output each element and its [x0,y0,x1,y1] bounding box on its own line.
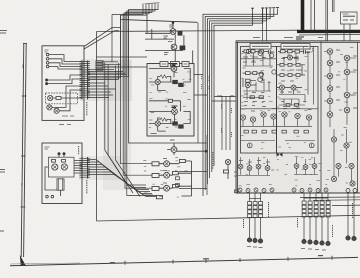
transistor Q63 [256,164,261,169]
title label B [281,44,310,49]
transistor Q105 [61,164,67,170]
mini wires down [344,24,350,41]
transistor Q56 [350,181,355,186]
resistor R43 [262,130,266,133]
extra labels A2 [244,93,265,106]
resistor R32 [296,63,300,66]
transistor Q50 [344,107,350,113]
transistor Q9 [164,161,170,167]
wire from T1 [49,55,82,62]
transistor Q43 [327,73,333,79]
bottom faint second line [10,263,80,264]
wire Q2 base [145,49,183,51]
resistor R46 [294,130,298,133]
right cluster wires [294,157,318,175]
bottom line tick a [124,261,126,265]
transistor Q2 [171,44,177,50]
vertical wire x147 [146,13,148,33]
bundle vertical v4 [121,15,153,164]
left bar arrowhead [20,255,26,266]
box1 riser wire b [84,31,119,50]
resistor R7 dark [179,125,184,128]
big box bottom edge [97,215,360,221]
box1 inner label text [45,50,49,52]
label rect L1 [160,62,168,67]
long vertical wire x266 [266,9,268,42]
wires row B1 [278,51,310,57]
mini parts [343,16,355,20]
nest stub ticks [251,7,279,10]
wire y57 [97,56,148,58]
transistor Q22 [288,55,293,60]
Q1 label [169,25,174,27]
left terminal circles [247,238,251,242]
label marks [162,63,188,65]
vertical label right of cluster [212,152,214,169]
nest wire n5 [212,8,263,172]
wire Q1 top tap [172,23,174,29]
fuse bowtie on inner box bottom [277,152,283,157]
Q9 wires [159,161,191,164]
right stack side label [297,218,299,228]
bus stub ticks [145,3,160,4]
mid transistor row q35 [282,112,287,117]
right stack boxes [302,201,306,204]
label rect L3 [182,62,189,67]
vertical link Q1-Q2 [174,34,176,63]
Q8 legs [167,143,174,155]
wire y151 [177,150,207,152]
transistor Q102 [47,105,52,110]
resistor R22 [251,50,255,53]
inner box right rail [320,41,322,193]
bus line 1 [88,4,149,72]
mid row labels [241,107,312,112]
mid transistor row q37 [306,115,311,120]
wire Q102 out [52,86,82,107]
right partial line c [332,204,360,207]
node dot D [63,153,65,155]
long vertical wire x262 [262,9,264,42]
transistor Q104 [52,164,58,170]
nest wire n3 [207,8,270,184]
transistor Q7 [155,121,160,126]
cluster to rail wire lower [179,188,207,190]
wire from node A [48,75,82,80]
Q10 wires [159,173,186,175]
left terminal labels [247,247,263,248]
fan wire f2 [88,162,146,188]
mini box outline [341,12,358,24]
inner rail line y108.8 [241,108,319,110]
resistor R104 [52,160,56,163]
cluster labels small [163,159,167,184]
cluster right small rect b [176,184,180,187]
mid row legs [240,117,312,126]
transistor Q101 [48,95,53,100]
transistor Qa2 [258,51,262,55]
right column devices [324,49,357,186]
vertical wire x112 [111,15,113,63]
vertical wire x314 [314,0,316,30]
vertical wire x311 [310,0,312,31]
bottom border line [10,257,358,265]
transistor Qa6 [258,77,262,81]
bundle vertical v3 [116,66,140,197]
transistor Q62 [247,166,252,171]
cluster to rail wire upper [179,171,207,173]
page edge mark mid-left [0,170,5,173]
right stack lower wires [304,217,328,242]
nested-bus to box ties [212,97,236,102]
resistor R30 [280,63,284,66]
left bar tick 1 [23,43,27,45]
fan wire f3 [88,165,149,190]
left bar tick 4 [21,206,26,208]
label box M3 [152,186,159,190]
transistor Q103 [54,108,59,113]
far right wires down [348,193,354,237]
scan bleed patch strip2 [79,156,121,180]
resistor R1 [178,31,182,35]
resistor R26 [246,79,251,82]
resistor R9 [180,159,186,162]
label near x332 [332,225,334,237]
transistor Q41 [327,49,333,55]
inner box B [277,47,319,154]
right terminal circles [302,239,306,243]
dashed label box row top-left [304,47,313,53]
junction dot Q1 top [172,22,174,24]
resistor R47 [304,130,308,133]
tall box bottom text [151,133,157,135]
diode marks right [293,189,327,192]
bus line 5 [88,4,146,78]
nest labels [202,74,210,90]
box2 outline [42,143,82,204]
bottom line tick c [239,258,241,262]
box1 bottom label text [62,115,74,117]
wire row y140 [241,140,315,142]
transistor Qa3 [269,53,273,57]
transistor Q46 [327,112,333,118]
box2 label top [45,147,50,149]
nest wire n6 [214,8,253,166]
extra resistor Rb1 [286,104,290,107]
left stack wires down [250,193,261,202]
diode row left d1 [238,188,242,192]
resistor R4 dark [179,83,184,86]
box1 riser wire a [84,28,121,47]
Q11 wires [159,186,186,188]
box1 terminal T2 [46,58,49,61]
bottom line label 1 [110,262,115,264]
labels B [281,59,302,82]
resistor R28 [288,50,293,53]
wire y67 to tall box [103,66,147,68]
transistor Q64 [265,166,270,171]
zigzag resistor upper [160,75,167,78]
circled number 1 left [247,143,252,148]
label below Q2 [164,53,169,55]
right stack link [304,197,328,199]
transistor Qa1 [246,49,250,53]
transistor Q49 [344,92,350,98]
node dot C [58,153,60,155]
resistor R42 [252,130,256,133]
right partial line b [313,199,360,202]
scan bleed patch over bundle [103,60,131,190]
extra labels B2 [280,92,306,109]
strip1 rungs [80,62,91,98]
diode row right d10 [324,188,328,192]
fan wire f5 [88,170,152,194]
left edge small dash low [0,230,4,232]
bottom line tick d [287,257,289,261]
transistor Qa4 [259,72,263,76]
diode row left d3 [254,188,258,192]
mid transistor row q33 [261,112,266,117]
resistor R101 [56,97,61,100]
wire x112 top bend [112,4,143,15]
right column wires [324,52,356,128]
heavy vertical drop at x302 [301,0,305,32]
box2 terminal T5 [46,195,49,198]
extra resistor Ra1 [250,96,254,99]
cluster right small rect a [176,177,180,180]
wires row B2 [277,64,305,66]
bottom line label 2 [203,258,209,260]
scan bleed patch tall box [147,63,194,136]
strip1 tap wires [88,83,116,98]
lower right wires [334,129,352,181]
mid vertical label [268,202,270,217]
diode row right d6 [292,188,296,192]
bottom line tick e [331,256,333,260]
resistor R10 [172,172,178,175]
inter-cell rect [168,99,172,102]
wires row B3 [277,65,305,75]
vertical to box x192.7 [192,50,194,63]
transistor Q67 [312,164,317,169]
wire x325 [325,0,327,41]
resistor R11 [172,185,178,188]
box2 inner frame [49,157,75,177]
bundle vertical v6 [125,12,152,188]
left bar tick 3 [21,155,26,157]
box2 outer side label [86,180,88,194]
bottom line label 3 [318,255,323,257]
transistor Q24 [291,85,296,90]
big box top edge [97,30,299,31]
tall box outline [147,64,194,137]
diode row left d5 [270,188,274,192]
bus line 3 [88,4,155,75]
extra mesh box A [243,53,273,100]
wire from T3 [49,63,82,67]
resistor R24 [246,72,251,75]
wire y143 [144,142,207,144]
resistor R25 [253,72,257,75]
diode marks left [239,189,273,192]
wire Q103 out [59,90,82,111]
fan wire f4 [88,167,150,192]
box1 terminal T3 [46,62,49,65]
mid transistor row q32 [250,117,255,122]
resistor R6 dark [173,122,178,125]
wire from T2 [49,59,82,64]
transistor Q51 [331,137,336,142]
right column labels [336,50,357,108]
box1 outline [42,46,84,121]
fan wire f1 [88,160,146,186]
rail vertical x207 [206,135,208,195]
strip2 rungs [80,158,91,177]
transistor Q66 [303,165,308,170]
speaker label vertical [352,203,354,218]
transistor Q48 [344,69,350,75]
circled number 1 right [309,143,314,148]
Q8 label [170,139,175,141]
wire from node B [48,79,82,84]
Q4 dark label [171,64,177,66]
box1 terminal T1 [46,53,49,56]
diode D11 [346,189,350,193]
node dot A [46,79,48,81]
wire box2 w3 [45,167,61,196]
diode row right d9 [316,189,320,193]
mid transistor row q34 [271,114,276,119]
capacitor C22 [304,50,306,54]
bundle vertical v5 [123,14,152,175]
vertical wire x151.8 [151,29,153,39]
Q2 label [168,41,173,43]
wire x230 [229,96,231,150]
wire sub-box out [53,97,82,99]
box1 terminal T4 [46,65,49,68]
nest wire n1 [203,8,278,196]
transistor Q47 [344,55,350,61]
diode D12 [353,189,357,193]
box1 dashed sub-box [46,93,78,104]
lower clusters inside main box [238,157,357,193]
junction block B1 [96,61,103,70]
wire long y22.6 [121,20,198,23]
transistor Q23 [280,85,285,90]
transistor Q21 [245,82,250,87]
extra mesh box B [279,47,314,106]
left cluster wires [238,157,270,176]
vertical link R1-R2 [183,35,185,46]
resistor R33 [280,74,284,77]
label box M4 [156,195,162,198]
strip2 rails [82,157,88,179]
bus line 6 [88,63,119,80]
near-box small parts [235,190,239,193]
transistor Q44 [327,86,333,92]
left-of-box label dashes [222,104,232,137]
wires row B4 [277,88,302,95]
transistor Q53 [336,163,341,168]
left stack link [250,198,261,200]
left stack side label [243,219,245,228]
wire x334 [333,0,335,12]
label under box1 [59,124,71,126]
bundle vertical v2 [108,64,133,193]
scan bleed patch main box [236,41,360,193]
nest wire n2 [205,8,274,190]
mid transistor row q36 [295,113,300,118]
transistor Q65 [294,164,299,169]
transistor Q3 [155,79,160,84]
bundle vertical v1 [105,62,128,186]
wire x332 [331,0,333,12]
left bar label 4 [21,183,23,186]
transistor Q61 [238,164,243,169]
mid transistor row q31 [240,115,245,120]
vertical wire x198 [197,23,199,143]
inner box A [241,47,277,154]
resistor R12 [223,170,228,173]
resistor R35 [296,74,300,77]
main box right edge [357,43,359,193]
rail lower line [299,33,360,36]
wire x226 [225,96,227,150]
capacitor C21 [269,50,271,54]
resistor R2 [180,46,185,50]
title label A [250,44,271,49]
wire box2 w1 [59,155,64,157]
wires cell A2 [243,73,263,87]
resistor R45 [282,130,286,133]
resistor R27 [281,50,286,53]
transistor Q4 [171,66,177,72]
transistor Q1 [170,29,176,35]
wire x327 [327,0,329,41]
junction dot y151 [206,150,208,152]
transistor Q11 [164,185,170,191]
inter-cell wires [149,101,181,112]
left bar label B [22,65,24,69]
fan wire f7 [88,175,156,197]
bundle vertical v7 [127,11,156,196]
resistor R34 [288,74,292,77]
wire y39.1 [145,38,174,40]
resistor R105 [62,160,66,163]
bottom line tick c2 [205,259,207,263]
scattered tiny value labels [143,48,353,197]
far right terminals [346,236,350,240]
wires row A1 [242,50,274,53]
transistor Q52 [344,143,349,148]
transistor Q55 [349,163,354,168]
heavy top-right rail [297,30,360,33]
resistor R21 [244,50,249,53]
inner line boxA y58.8 [241,58,277,60]
bottom line tick b [172,260,174,264]
transistor Qa5 [272,70,276,74]
resistor R41 [244,130,248,133]
extra resistor Ra2 [259,96,263,99]
diode row right d8 [308,188,312,192]
resistor R3 dark [173,80,178,83]
bundle vertical v8 [129,10,144,143]
transistor Q12 [225,159,230,164]
bus line 4 [88,4,158,77]
box1 vertical side label [86,102,88,116]
main box outline [236,41,360,193]
page edge mark top-left [0,31,7,34]
